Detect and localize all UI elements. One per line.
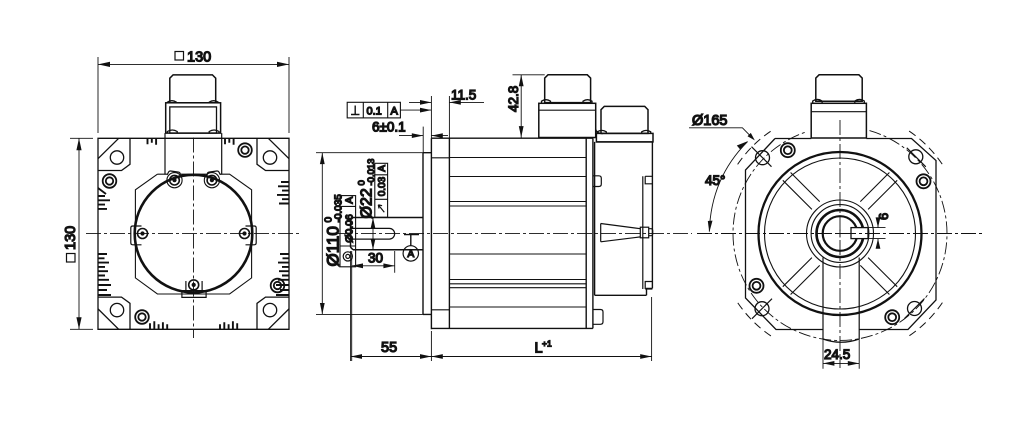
dim 55 extension lines: [351, 251, 432, 361]
cover plate ear top-right: [207, 171, 220, 175]
tie-bolt screw top-right: [238, 143, 252, 157]
shaft shoulder circle (bold): [817, 210, 864, 257]
rear connector feet: [813, 99, 865, 103]
power connector screws bumps: [542, 100, 593, 104]
mounting screw top-left (slotted): [752, 147, 772, 167]
dim 42.8 extension line top: [513, 74, 545, 76]
shaft outline: [351, 218, 424, 250]
power connector plug: [545, 75, 591, 103]
front connector plug: [170, 75, 216, 103]
flange plate rear face: [448, 138, 450, 328]
side tab left: [131, 226, 142, 245]
FCF circular-runout 0.03 A (rotated): [375, 163, 388, 217]
side tab left screw: [138, 229, 148, 239]
svg-text:55: 55: [381, 340, 397, 356]
dim 6 keyway: extension lines: [868, 228, 886, 239]
tie-bolt top-left: [781, 143, 795, 157]
corner boss bottom-right with chamfer: [257, 297, 289, 329]
power connector base lip line: [539, 109, 596, 111]
tie-bolt screw bottom-right: [271, 279, 285, 293]
dimension square130 horizontal: arrows: [98, 62, 110, 67]
dim 6 extension line: [422, 127, 424, 153]
rib spokes X pattern: [783, 173, 897, 295]
side view centerline: [337, 233, 692, 235]
front connector corner bumps: [167, 101, 219, 133]
rear connector base lip line: [811, 111, 866, 113]
rear view centerline horizontal: [697, 233, 983, 235]
tie-bolt screw top-left: [103, 174, 117, 188]
dimension square130 horizontal: extension lines: [98, 57, 289, 133]
dim L extension line right: [651, 297, 653, 361]
svg-text:24.5: 24.5: [824, 347, 850, 362]
dimension square130 vertical: text: [63, 226, 79, 262]
dia165 chamfer arcs (dashed): [738, 131, 943, 336]
cooling fins bottom edge left cluster: [150, 321, 167, 329]
flange chamfer lines: [431, 158, 449, 310]
label dia165 with leader: [689, 113, 755, 140]
corner boss top-right with chamfer: [257, 138, 289, 170]
power connector base: [539, 103, 596, 137]
cooling fins right edge bottom cluster: [276, 285, 289, 295]
svg-text:11.5: 11.5: [451, 88, 476, 103]
encoder housing inner rib: [643, 176, 653, 289]
center mark: [836, 230, 844, 238]
FCF perpendicularity 0.1 A: [347, 102, 431, 118]
dim dia110 extension lines: [316, 153, 424, 315]
side tab right screw: [240, 229, 250, 239]
svg-text:+1: +1: [542, 339, 552, 349]
cooling fins top edge right small: [225, 138, 234, 145]
mounting screw top-right (slotted): [907, 148, 926, 167]
front view centerline vertical: [193, 138, 195, 339]
front view centerline horizontal: [86, 233, 302, 235]
svg-text:45°: 45°: [705, 173, 725, 188]
cooling fins left edge bottom cluster: [98, 285, 111, 295]
dim 11.5: arrows outside: [409, 101, 484, 103]
dim 6 text (rotated): [876, 213, 891, 220]
dim 30 line and arrows: [352, 265, 395, 267]
dim 11.5 extension lines: [431, 96, 449, 138]
cover screw top-right: [204, 173, 219, 188]
body cooling fin lines: [449, 158, 586, 308]
hub outer circles: [807, 200, 874, 267]
datum A symbol: [403, 235, 419, 262]
svg-text:A: A: [377, 165, 388, 172]
shaft diameter dim line vertical: [372, 218, 374, 250]
cooling fins left edge lower: [98, 254, 109, 280]
rear flange square with chamfered corners: [746, 139, 937, 330]
encoder connector base: [596, 133, 653, 142]
cooling fins right edge lower: [278, 254, 289, 280]
dim 42.8 text (rotated): [506, 86, 521, 112]
dim 6: arrows outside: [877, 219, 879, 249]
svg-text:130: 130: [187, 50, 211, 66]
shaft keyway slot: [351, 228, 395, 239]
corner boss bottom-left with chamfer: [98, 297, 130, 329]
shaft keyway slot: [851, 228, 868, 239]
motor body rear faces: [586, 138, 593, 328]
svg-text:A: A: [343, 197, 355, 204]
mounting screw bottom-right (slotted): [905, 299, 925, 319]
dim 55: dim line: [351, 356, 432, 358]
rear tie-bolt head bottom (side view): [593, 310, 603, 325]
dim 24.5: dim line: [823, 362, 859, 364]
dimension square130 horizontal: text: [175, 50, 211, 66]
bottom tab: [182, 281, 206, 297]
rear shaft nub: [649, 229, 653, 236]
end bell inner circle: [765, 158, 916, 309]
cooling fins bottom edge right cluster: [220, 321, 237, 329]
label dia110 tolerance (rotated): [324, 194, 345, 267]
svg-text:130: 130: [63, 226, 79, 250]
bolt circle dia145 (dash-dot): [733, 131, 947, 341]
dim 42.8: dim line: [520, 75, 522, 138]
bottom tab screw: [189, 280, 199, 290]
encoder housing outline: [595, 142, 653, 295]
dimension square130 vertical: dim line: [78, 138, 80, 329]
front cover plate octagon: [135, 174, 251, 294]
keyway length dim 30: extension lines: [352, 251, 395, 361]
mounting hole bottom-left: [110, 303, 123, 316]
tie-bolt top-right: [917, 174, 931, 188]
corner boss top-left with chamfer: [98, 138, 130, 170]
tie-bolt bottom-left: [750, 279, 764, 293]
dimension square130 vertical: arrows: [76, 138, 81, 150]
front flange square outline: [98, 138, 289, 329]
svg-text:-0.013: -0.013: [366, 159, 377, 186]
svg-text:42.8: 42.8: [506, 86, 521, 112]
rear connector plug: [816, 75, 862, 101]
tie-bolt bottom-right: [885, 310, 899, 324]
svg-text:A: A: [408, 249, 415, 260]
flange plate front face: [430, 138, 432, 329]
svg-text:A: A: [391, 106, 399, 118]
rear connector base: [811, 103, 866, 138]
spigot boss dia110: [423, 153, 431, 315]
cooling fins left edge upper: [98, 188, 110, 209]
svg-text:0.03: 0.03: [377, 176, 388, 196]
mounting screw bottom-left (slotted): [752, 299, 772, 319]
svg-text:Ø165: Ø165: [692, 113, 727, 129]
side tab right: [246, 226, 257, 245]
motor body top edge: [431, 137, 593, 139]
front connector base inner: [170, 107, 217, 133]
mounting hole top-left: [110, 151, 123, 164]
encoder connector screw bumps: [597, 130, 650, 133]
rear tie-bolt head top (side view): [593, 176, 601, 187]
front connector base outer: [166, 103, 221, 133]
cooling fins right edge upper: [277, 182, 289, 204]
dimension square130 horizontal: dim line: [98, 63, 289, 65]
dim 24.5 extension (lines extend below): [823, 339, 859, 369]
motor body bottom edge: [431, 327, 593, 329]
dim L: dim line: [431, 356, 651, 358]
svg-text:30: 30: [368, 251, 383, 266]
shaft circle dia22 (bold): [823, 216, 858, 251]
cover plate ear top-left: [167, 171, 180, 175]
cooling fins top edge left small: [148, 138, 157, 145]
mounting hole bottom-right: [263, 303, 276, 316]
dim 6+-0.1: dim line with outside arrows: [399, 135, 448, 137]
FCF concentricity dia0.06 A (rotated): [340, 196, 356, 267]
rear shaft cone: [601, 224, 641, 242]
mounting hole top-right: [263, 151, 276, 164]
end bell outer circle: [759, 152, 922, 315]
big bearing circle: [135, 175, 253, 293]
rear shaft end cap: [640, 227, 648, 238]
svg-text:Ø22: Ø22: [359, 188, 376, 218]
bottom protrusion 24.5: [823, 258, 859, 343]
svg-text:6: 6: [876, 213, 891, 220]
label dia22 tolerance (rotated): [357, 159, 378, 219]
svg-text:0.1: 0.1: [367, 106, 382, 118]
cover screw top-left: [167, 173, 182, 188]
dim dia110: dim line: [321, 153, 323, 315]
rear view centerline vertical: [839, 120, 841, 368]
dimension square130 vertical: extension lines: [70, 138, 93, 329]
svg-text:Ø0.06: Ø0.06: [343, 214, 355, 243]
svg-text:6±0.1: 6±0.1: [372, 120, 406, 135]
body top curve right of connector: [596, 129, 603, 134]
encoder connector plug: [601, 106, 648, 133]
tie-bolt screw bottom-left: [135, 310, 149, 324]
label 45deg with dimension arc: [705, 141, 748, 233]
connector bracket lines: [165, 133, 222, 175]
